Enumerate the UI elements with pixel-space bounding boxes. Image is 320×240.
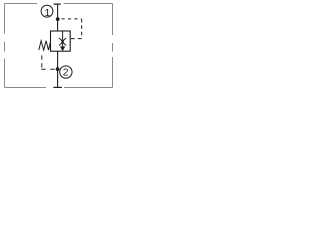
svg-text:2: 2 — [63, 68, 69, 79]
wire: port 1 line (top port to valve body) — [57, 4, 59, 31]
flow line through orifice — [62, 31, 64, 47]
envelope left (dashed boundary) — [4, 4, 6, 88]
port 2 terminal tick — [53, 86, 62, 88]
port 1 terminal tick — [54, 3, 61, 5]
envelope bottom (dashed boundary) — [5, 87, 113, 89]
orifice / throttle arcs — [59, 38, 66, 45]
flow arrowhead (direction of flow, down to port 2) — [60, 46, 65, 51]
pilot line (left): horizontal run to port 2 junction — [41, 68, 56, 70]
node: pilot junction at port 2 line — [56, 67, 60, 71]
envelope right (dashed boundary) — [112, 4, 114, 88]
pilot line (right): port 1 tap to compensator right side, horizontal run — [62, 18, 82, 20]
pilot line (left): spring chamber vertical run down — [41, 55, 43, 67]
node: pilot tap junction at port 1 line — [56, 17, 60, 21]
port label 2 (circle) — [60, 66, 72, 78]
port label 1 (circle) — [41, 5, 53, 17]
spring (compensator spring, left of body) — [39, 41, 51, 50]
pilot line (right): vertical run down outside body — [81, 19, 83, 38]
pilot line (right): horizontal run into body right side — [70, 38, 81, 40]
envelope top (dashed boundary) — [5, 3, 113, 5]
valve body (pressure-compensated flow regulator square) — [51, 31, 71, 51]
wire: port 2 line (valve body to bottom port) — [57, 51, 59, 87]
svg-text:1: 1 — [44, 7, 50, 19]
